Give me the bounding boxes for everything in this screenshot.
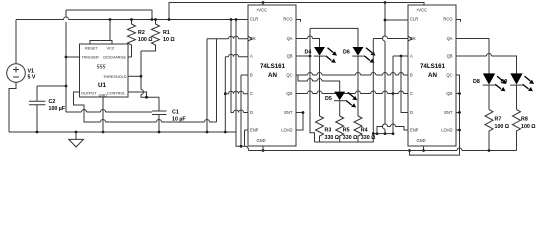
svg-text:CLR: CLR bbox=[410, 17, 418, 22]
node: R1 corner dot bbox=[151, 18, 154, 21]
wire: VCC rail y=19.5 with hop at x=66 bbox=[16, 17, 248, 20]
svg-text:QD: QD bbox=[286, 91, 292, 96]
wire: bottom right rail y=150.5 bbox=[249, 148, 517, 151]
svg-text:LOAD: LOAD bbox=[441, 127, 452, 132]
node: U3 clr tap bbox=[384, 1, 387, 4]
svg-text:D4: D4 bbox=[305, 50, 312, 56]
wire: clock riser x=218.5 bbox=[216, 39, 218, 122]
svg-text:R1: R1 bbox=[163, 30, 170, 36]
node: rail rise bbox=[168, 18, 171, 21]
svg-text:QA: QA bbox=[447, 36, 453, 41]
wire: QA2 to D8 bbox=[456, 39, 489, 74]
svg-text:ENT: ENT bbox=[444, 110, 453, 115]
wire: U3 ENP feed bbox=[377, 124, 408, 134]
resistor R5 bbox=[336, 116, 358, 142]
wire: ENP1 feed bbox=[245, 130, 249, 146]
svg-text:QC: QC bbox=[286, 72, 292, 77]
capacitor C1 bbox=[152, 110, 186, 133]
wire: U3 CLR riser x=385 bbox=[383, 3, 386, 134]
capacitor C2 bbox=[29, 86, 66, 132]
wire: A1 line from x=225.3 bbox=[225, 54, 248, 57]
resistor R2 bbox=[128, 18, 154, 57]
svg-text:R4: R4 bbox=[361, 128, 368, 134]
svg-text:100 µF: 100 µF bbox=[49, 106, 66, 112]
node: C line tap bbox=[224, 92, 227, 95]
node: C2 junction bbox=[65, 85, 68, 88]
svg-text:74LS161: 74LS161 bbox=[260, 63, 286, 70]
node: trigger junction bbox=[65, 56, 68, 59]
svg-text:ENP: ENP bbox=[250, 127, 259, 132]
svg-text:330 Ω: 330 Ω bbox=[343, 135, 358, 141]
svg-text:R2: R2 bbox=[138, 30, 145, 36]
wire: bottom ground rail left y=132 bbox=[9, 132, 249, 151]
wire: RCO2 stub bbox=[456, 20, 461, 22]
svg-text:B: B bbox=[410, 72, 413, 77]
wire: U2 +VCC riser bbox=[262, 3, 264, 6]
wire: CONTROL stub bbox=[128, 92, 147, 97]
svg-text:R3: R3 bbox=[325, 128, 332, 134]
svg-text:+VCC: +VCC bbox=[416, 7, 427, 12]
wire: QC2/QD2/ENT2/LOAD2 bus x=459.5 bbox=[410, 75, 460, 155]
svg-text:B: B bbox=[250, 72, 253, 77]
wire: threshold loop down to C1 bbox=[141, 51, 159, 111]
LED D6 bbox=[343, 47, 376, 116]
svg-text:RCO: RCO bbox=[443, 17, 452, 22]
node: U2 vcc tap bbox=[262, 1, 265, 4]
wire: U1 OUTPUT route to clock riser bbox=[74, 92, 217, 122]
svg-text:C2: C2 bbox=[49, 99, 56, 105]
LED D8 bbox=[473, 73, 507, 109]
resistor R4 bbox=[354, 116, 376, 142]
svg-text:U1: U1 bbox=[98, 82, 106, 89]
svg-text:D: D bbox=[250, 110, 253, 115]
svg-text:GND: GND bbox=[417, 138, 426, 143]
svg-text:R5: R5 bbox=[343, 128, 350, 134]
svg-text:C: C bbox=[250, 91, 253, 96]
wire: U1 RESET/VCC risers bbox=[90, 20, 112, 45]
LED D5 bbox=[325, 92, 357, 116]
svg-text:330 Ω: 330 Ω bbox=[325, 135, 340, 141]
svg-text:D8: D8 bbox=[473, 79, 480, 85]
wire: x=236 vertical from rail tap bbox=[235, 20, 237, 133]
resistor R8 bbox=[513, 110, 537, 151]
wire: resistor bottom rail with jogs bbox=[315, 134, 394, 142]
LED D4 bbox=[305, 47, 338, 116]
svg-text:330 Ω: 330 Ω bbox=[361, 135, 376, 141]
wire: x=225.3 vertical bbox=[224, 57, 226, 132]
wire: B1 feed x=241 bbox=[241, 75, 248, 146]
wire: QB1 stub bbox=[296, 55, 310, 57]
svg-text:C1: C1 bbox=[172, 110, 179, 116]
svg-text:DISCHARGE: DISCHARGE bbox=[103, 56, 126, 60]
svg-text:D6: D6 bbox=[343, 50, 350, 56]
wire: TRIGGER stub bbox=[66, 56, 80, 58]
svg-text:R8: R8 bbox=[521, 117, 528, 123]
svg-text:D9: D9 bbox=[501, 79, 508, 85]
resistor R1 bbox=[141, 18, 175, 51]
svg-text:GND: GND bbox=[257, 138, 266, 143]
svg-text:A: A bbox=[250, 54, 253, 59]
svg-text:C: C bbox=[410, 91, 413, 96]
wire: QB2 to D9 with hop over D8 column bbox=[456, 54, 517, 74]
wire: U3 CK feed x=373.3 bbox=[373, 36, 408, 39]
svg-text:QA: QA bbox=[287, 36, 293, 41]
svg-text:74LS161: 74LS161 bbox=[420, 63, 446, 70]
svg-text:D: D bbox=[410, 110, 413, 115]
svg-text:QB: QB bbox=[287, 54, 293, 59]
wire: U1 GND drop bbox=[102, 97, 104, 132]
svg-text:GND: GND bbox=[99, 94, 108, 98]
svg-text:555: 555 bbox=[97, 64, 107, 70]
wire: RCO1 stub bbox=[296, 20, 301, 22]
wire: VCC drop x=231 to D pin bbox=[231, 20, 248, 113]
LED D9 bbox=[501, 73, 535, 109]
svg-text:QC: QC bbox=[446, 72, 452, 77]
svg-text:+VCC: +VCC bbox=[256, 7, 267, 12]
voltage source V1 bbox=[7, 20, 36, 133]
wire: ENT1/LOAD1 loop bbox=[296, 113, 303, 131]
svg-text:RESET: RESET bbox=[85, 46, 98, 50]
svg-text:THRESHOLD: THRESHOLD bbox=[103, 75, 127, 79]
wire: top VCC rail y=2.5 bbox=[169, 3, 424, 20]
svg-text:5 V: 5 V bbox=[28, 75, 36, 81]
svg-text:D5: D5 bbox=[325, 96, 332, 102]
wire: CK1 line y=38.7 with hops at 228.5 and 236 bbox=[207, 36, 248, 39]
wire: QD1 line y=93.5 to U3 C bbox=[296, 91, 408, 94]
svg-text:R7: R7 bbox=[495, 117, 502, 123]
wire: top bypass y=10 bbox=[66, 10, 152, 20]
wire: D5 feed branch y=81 bbox=[298, 75, 340, 92]
svg-text:AN: AN bbox=[268, 72, 277, 79]
wire: x=66 vertical trigger node bbox=[66, 10, 152, 112]
node: vcc riser tap bbox=[109, 18, 112, 21]
IC U2 74LS161 bbox=[248, 5, 296, 146]
wire: U3 A feed x=393 bbox=[393, 56, 408, 134]
wire: U3 D feed x=401 bbox=[401, 56, 408, 113]
svg-text:RCO: RCO bbox=[283, 17, 292, 22]
svg-text:QB: QB bbox=[447, 54, 453, 59]
svg-text:CLR: CLR bbox=[250, 17, 258, 22]
svg-text:ENT: ENT bbox=[284, 110, 293, 115]
wire: C1pin line y=93.7 bbox=[225, 91, 248, 94]
wire: x=207 vertical to rail bbox=[206, 39, 208, 132]
svg-text:10 Ω: 10 Ω bbox=[163, 37, 175, 43]
resistor R7 bbox=[485, 110, 510, 151]
svg-text:AN: AN bbox=[428, 72, 437, 79]
wire: QC1 line y=75 to U3 B bbox=[296, 73, 408, 76]
svg-text:100 Ω: 100 Ω bbox=[521, 124, 536, 130]
ground bbox=[69, 132, 84, 147]
svg-text:LOAD: LOAD bbox=[281, 127, 292, 132]
wire: U3 GND stub bbox=[423, 146, 425, 151]
svg-text:A: A bbox=[410, 54, 413, 59]
svg-text:QD: QD bbox=[446, 91, 452, 96]
wire: U2 GND stub bbox=[262, 146, 264, 151]
IC U3 74LS161 bbox=[408, 5, 456, 146]
svg-text:100 Ω: 100 Ω bbox=[138, 37, 153, 43]
wire: CLR2 line bbox=[385, 19, 408, 21]
svg-text:VCC: VCC bbox=[107, 46, 115, 50]
resistor R3 bbox=[316, 116, 340, 142]
svg-text:CONTROL: CONTROL bbox=[107, 91, 126, 95]
svg-text:100 Ω: 100 Ω bbox=[495, 124, 510, 130]
wire: THRESHOLD stub bbox=[128, 75, 141, 77]
wire: QA1 to D4 anode bbox=[296, 36, 320, 47]
svg-text:ENP: ENP bbox=[410, 127, 419, 132]
svg-text:OUTPUT: OUTPUT bbox=[81, 91, 97, 95]
svg-text:TRIGGER: TRIGGER bbox=[82, 56, 100, 60]
timer U1 555 box bbox=[80, 44, 129, 98]
wire: x=310 riser and D6 top wire bbox=[310, 28, 358, 142]
